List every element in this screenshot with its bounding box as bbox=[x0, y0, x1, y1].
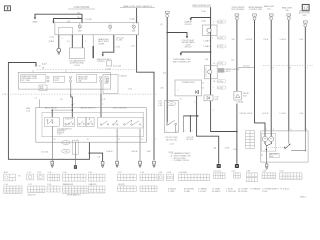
svg-text:0-P/L-B: 0-P/L-B bbox=[240, 113, 247, 115]
svg-text:1/B: 1/B bbox=[260, 155, 262, 157]
svg-text:W: WHITE: W: WHITE bbox=[212, 191, 221, 193]
svg-text:1: 1 bbox=[155, 139, 156, 141]
svg-text:2 L-WB: 2 L-WB bbox=[116, 40, 123, 42]
svg-text:6: 6 bbox=[110, 31, 111, 33]
relay band text box 3 bbox=[77, 75, 97, 83]
dimmer switch box bbox=[98, 117, 144, 128]
svg-text:(2/B-B: (2/B-B bbox=[49, 41, 55, 43]
svg-text:NO.7 15A): NO.7 15A) bbox=[22, 79, 30, 82]
svg-text:1: 1 bbox=[266, 129, 267, 131]
fusible link column 3 bbox=[269, 14, 273, 20]
fuse box upper bbox=[203, 25, 218, 36]
svg-text:CIRCUIT: CIRCUIT bbox=[184, 24, 192, 26]
switch contact 1 bbox=[78, 23, 81, 29]
inline connector marks on loop top bbox=[35, 64, 37, 66]
svg-text:1: 1 bbox=[212, 37, 213, 39]
svg-text:C-23: C-23 bbox=[118, 172, 122, 174]
relay band right pins bbox=[106, 78, 108, 83]
svg-text:L-W: L-W bbox=[67, 21, 71, 23]
wire branch to connector bbox=[89, 153, 102, 161]
svg-text:UNIT: UNIT bbox=[104, 83, 108, 85]
svg-text:P/L-B: P/L-B bbox=[247, 113, 252, 115]
dashed bulkhead line upper bbox=[37, 69, 136, 71]
svg-text:(C-05): (C-05) bbox=[106, 68, 111, 70]
svg-text:(LO): (LO) bbox=[267, 8, 271, 10]
wire charge circuit branch bbox=[191, 17, 211, 19]
svg-text:4: 4 bbox=[74, 103, 75, 105]
fusible link column 5 bbox=[303, 21, 307, 27]
svg-text:COLUMN-SW: COLUMN-SW bbox=[63, 184, 74, 186]
wire relay output to black connector bbox=[75, 142, 77, 165]
svg-text:C-11: C-11 bbox=[48, 172, 52, 174]
relay band box 2 bbox=[54, 76, 65, 82]
node pop-up branch bbox=[166, 32, 168, 34]
black joint connector B bbox=[235, 164, 239, 168]
relay box 3 bbox=[78, 117, 86, 126]
svg-text:14: 14 bbox=[180, 99, 182, 101]
svg-text:L: BLUE: L: BLUE bbox=[226, 188, 233, 190]
svg-text:C-304: C-304 bbox=[74, 65, 80, 67]
wire switch output 1 bbox=[81, 35, 83, 48]
svg-text:C-83: C-83 bbox=[246, 171, 250, 173]
column relay box bbox=[69, 48, 84, 59]
wire column 2 bbox=[255, 20, 266, 131]
connector ellipse on pop-up trunk bbox=[167, 102, 176, 106]
svg-text:COM POP: COM POP bbox=[65, 119, 74, 121]
svg-text:4-18: 4-18 bbox=[215, 99, 219, 101]
bulb ground junction bbox=[265, 142, 271, 163]
wire motor lead 2 bbox=[189, 116, 191, 132]
svg-text:C-26 (B): C-26 (B) bbox=[236, 102, 244, 104]
svg-text:7 B-18: 7 B-18 bbox=[262, 191, 267, 193]
svg-text:13: 13 bbox=[141, 139, 143, 141]
svg-text:1-7/B: 1-7/B bbox=[225, 148, 230, 150]
pin into big box bbox=[39, 99, 41, 107]
dashed bulkhead line lower bbox=[2, 93, 157, 95]
fuse box lower bbox=[204, 66, 217, 79]
svg-text:C-17: C-17 bbox=[28, 184, 32, 186]
svg-text:0-RL-B: 0-RL-B bbox=[131, 151, 138, 153]
svg-text:J/B (10P): J/B (10P) bbox=[90, 184, 97, 186]
svg-text:O: ORANGE: O: ORANGE bbox=[250, 187, 261, 190]
svg-text:C-05: C-05 bbox=[63, 172, 67, 174]
svg-text:A-10: A-10 bbox=[4, 171, 8, 174]
svg-text:← : CONNECTOR FIX: ← : CONNECTOR FIX bbox=[171, 160, 190, 162]
svg-text:9 (C-05): 9 (C-05) bbox=[243, 66, 250, 68]
connector pin circles B bbox=[100, 76, 102, 82]
svg-text:C-03: C-03 bbox=[167, 172, 171, 174]
connector terminal bbox=[101, 161, 104, 167]
svg-text:(1): (1) bbox=[160, 24, 163, 26]
svg-text:12: 12 bbox=[39, 66, 41, 68]
svg-text:Br: BROWN: Br: BROWN bbox=[184, 188, 194, 190]
svg-text:L-P/L: L-P/L bbox=[128, 88, 132, 90]
svg-text:14: 14 bbox=[213, 63, 215, 65]
fusible link column 4 bbox=[287, 14, 291, 20]
power unit box bbox=[175, 80, 202, 96]
diode inside power unit bbox=[196, 90, 199, 94]
wire trunk D from switch bbox=[103, 35, 114, 55]
svg-text:5 (C-05): 5 (C-05) bbox=[41, 151, 48, 153]
connector label outlines bbox=[217, 20, 226, 23]
connector terminal under relay bbox=[51, 161, 54, 167]
svg-text:2: 2 bbox=[273, 129, 274, 131]
svg-text:Y: YELLOW: Y: YELLOW bbox=[226, 191, 236, 193]
wire dimmer high output bbox=[139, 129, 141, 161]
wire big ground loop bbox=[8, 63, 89, 160]
svg-text:POWER UNIT: POWER UNIT bbox=[182, 82, 196, 84]
svg-text:L-3/L: L-3/L bbox=[299, 39, 303, 41]
dashed intermediate connector line bbox=[263, 65, 313, 67]
connector terminal low bbox=[116, 161, 119, 167]
wire fuse link cross bbox=[238, 67, 255, 69]
svg-text:R: RED: R: RED bbox=[184, 191, 191, 193]
svg-text:1: 1 bbox=[166, 131, 167, 133]
inner switch assembly box bbox=[42, 112, 144, 136]
svg-text:CIRCUIT: CIRCUIT bbox=[184, 47, 192, 49]
svg-text:L-3/L B: L-3/L B bbox=[280, 39, 287, 41]
svg-text:25 A: 25 A bbox=[201, 10, 206, 13]
svg-text:J/B (16P): J/B (16P) bbox=[118, 184, 125, 186]
node junction on bottom trunk bbox=[89, 152, 91, 154]
wire branch to pop-up circuit bbox=[167, 33, 187, 37]
svg-text:L-3/L: L-3/L bbox=[299, 113, 303, 115]
svg-text:2: 2 bbox=[194, 102, 195, 104]
svg-text:CONTROL UNIT: CONTROL UNIT bbox=[249, 9, 263, 11]
svg-text:25 A: 25 A bbox=[201, 20, 206, 23]
svg-text:G: GREEN: G: GREEN bbox=[198, 188, 207, 190]
svg-text:3: 3 bbox=[306, 129, 307, 131]
svg-text:C-05-2 (B) 15A: C-05-2 (B) 15A bbox=[74, 6, 90, 9]
wire pop-up motor bus bbox=[183, 115, 197, 117]
svg-text:C-03: C-03 bbox=[169, 143, 173, 145]
svg-text:HID CONT: HID CONT bbox=[270, 154, 278, 156]
svg-text:C-10: C-10 bbox=[64, 151, 68, 153]
svg-text:C-16: C-16 bbox=[4, 184, 8, 186]
svg-text:P/L-B: P/L-B bbox=[264, 39, 269, 41]
svg-text:4: 4 bbox=[176, 131, 177, 133]
relay box 1 bbox=[45, 117, 60, 126]
svg-text:L-4/5: L-4/5 bbox=[131, 45, 135, 47]
dedicated fuse sub-box bbox=[39, 85, 47, 91]
wire bulb feeds inside bbox=[264, 131, 266, 137]
wire relay band output B bbox=[100, 82, 102, 94]
arrow to battery bbox=[34, 17, 36, 19]
pin ticks band to bulkhead bbox=[32, 70, 34, 73]
svg-text:(B): (B) bbox=[214, 148, 217, 150]
svg-text:12: 12 bbox=[118, 139, 120, 141]
svg-text:1: 1 bbox=[192, 130, 193, 132]
wire column 5 bbox=[304, 27, 306, 131]
svg-text:(HI): (HI) bbox=[286, 10, 289, 12]
shielded joint connector black square bbox=[74, 165, 77, 169]
switch contact 3 bbox=[132, 24, 135, 30]
connector ring terminal bbox=[57, 48, 61, 52]
svg-text:9: 9 bbox=[213, 110, 214, 112]
engine compartment relay band box bbox=[18, 73, 110, 90]
svg-text:C-08 (GR): C-08 (GR) bbox=[179, 172, 188, 174]
dashed leveling link bbox=[268, 146, 285, 148]
wire relay band output A bbox=[70, 82, 72, 94]
wire leveling feed 4 bbox=[288, 131, 290, 144]
svg-text:C-311: C-311 bbox=[57, 134, 62, 136]
svg-text:AND CORNER LIGHT: AND CORNER LIGHT bbox=[173, 60, 192, 63]
fusible link column 1 bbox=[235, 14, 239, 20]
wire column 4 bbox=[288, 20, 290, 131]
svg-text:L-P/L-B: L-P/L-B bbox=[262, 113, 269, 115]
svg-text:C-12: C-12 bbox=[27, 172, 31, 174]
ground stub below headlight box bbox=[265, 162, 267, 164]
svg-text:4: 4 bbox=[291, 129, 292, 131]
svg-text:1: 1 bbox=[178, 90, 179, 92]
svg-text:15: 15 bbox=[54, 139, 56, 141]
svg-text:2: 2 bbox=[62, 38, 63, 40]
connector terminal lamp-ctrl bbox=[153, 161, 156, 167]
wire path B J/B to ground bbox=[211, 101, 237, 132]
svg-text:C-18: C-18 bbox=[47, 184, 51, 186]
black joint connector A bbox=[217, 164, 221, 168]
svg-text:1 (B): 1 (B) bbox=[233, 149, 237, 151]
pop-up relay box bbox=[165, 101, 179, 133]
svg-text:0-1: 0-1 bbox=[67, 41, 70, 43]
svg-text:C-10: C-10 bbox=[64, 142, 68, 144]
svg-text:14: 14 bbox=[87, 139, 89, 141]
smart J/B hatch block bbox=[218, 68, 224, 72]
svg-text:CONTROL: CONTROL bbox=[97, 61, 105, 63]
svg-text:B01: B01 bbox=[132, 31, 135, 33]
wire column 1 lower bbox=[236, 104, 238, 164]
wire dimmer low output bbox=[116, 129, 118, 161]
svg-text:1: 1 bbox=[85, 41, 86, 43]
svg-text:0-RL-B: 0-RL-B bbox=[106, 151, 113, 153]
wire J/B main trunk bbox=[210, 7, 212, 95]
relay box 2 bbox=[64, 117, 75, 126]
switch contact 2 bbox=[109, 24, 112, 30]
svg-text:AUTO RELAY: AUTO RELAY bbox=[45, 106, 58, 109]
big column switch box bbox=[36, 108, 147, 143]
svg-text:L 2: L 2 bbox=[35, 98, 37, 100]
svg-text:1-05A 8: 1-05A 8 bbox=[203, 45, 209, 48]
svg-text:C-08 A-02: C-08 A-02 bbox=[119, 75, 127, 78]
svg-text:B: BLACK: B: BLACK bbox=[168, 187, 177, 190]
svg-text:MOTOR RELAY: MOTOR RELAY bbox=[232, 8, 246, 11]
svg-text:C-30: C-30 bbox=[262, 171, 266, 173]
lighting switch box bbox=[55, 23, 139, 35]
headlight assembly box bbox=[261, 131, 308, 162]
diode box on J/B output bbox=[204, 95, 213, 101]
svg-text:LAMP-CTRL SWITCH(AUTO): LAMP-CTRL SWITCH(AUTO) bbox=[123, 5, 152, 8]
svg-text:C-25: C-25 bbox=[140, 172, 144, 174]
relay box 4 bbox=[86, 117, 94, 126]
svg-text:JR04-7: JR04-7 bbox=[300, 196, 306, 198]
svg-text:n: n bbox=[307, 67, 308, 69]
svg-text:12 (C-05): 12 (C-05) bbox=[113, 65, 121, 67]
svg-text:MOTOR (LH): MOTOR (LH) bbox=[166, 139, 177, 141]
svg-text:INSTRUMENT(C): INSTRUMENT(C) bbox=[67, 195, 81, 197]
svg-text:(BODY) B: (BODY) B bbox=[28, 195, 36, 197]
svg-text:C-302: C-302 bbox=[129, 19, 136, 21]
fusible link column 2 bbox=[253, 14, 257, 20]
wire turn signal branch bbox=[181, 51, 211, 53]
connector box D bbox=[107, 61, 112, 66]
warning diode box column 1 bbox=[234, 91, 241, 100]
svg-text:C-10: C-10 bbox=[88, 172, 92, 174]
svg-text:Lg: LT-GRN: Lg: LT-GRN bbox=[238, 188, 248, 190]
wire pop-up trunk bbox=[166, 17, 168, 122]
component box right of column relay bbox=[92, 35, 94, 46]
wire leveling feed 3 bbox=[291, 131, 305, 151]
svg-text:NO.8: NO.8 bbox=[55, 80, 59, 82]
svg-text:2-P/L-B: 2-P/L-B bbox=[246, 39, 253, 41]
leveling actuator contact bbox=[285, 144, 290, 149]
svg-text:L-3/L-B: L-3/L-B bbox=[280, 113, 287, 115]
svg-text:DOWN: DOWN bbox=[98, 43, 105, 45]
svg-text:□ : POWER SUPPLY: □ : POWER SUPPLY bbox=[262, 187, 280, 190]
wire switch output to ground connector bbox=[58, 35, 60, 48]
svg-text:2: 2 bbox=[185, 130, 186, 132]
control unit tall box bbox=[103, 75, 118, 94]
svg-text:C-14 rear: C-14 rear bbox=[214, 171, 222, 173]
connector C-10 ellipse 1 bbox=[62, 141, 70, 145]
svg-text:1-05A 8: 1-05A 8 bbox=[203, 40, 209, 43]
connector terminal high bbox=[139, 161, 142, 167]
page marker 1 bbox=[4, 6, 10, 11]
svg-text:MAIN: MAIN bbox=[33, 21, 38, 24]
lighting switch sub-box bbox=[59, 27, 73, 35]
svg-text:7: 7 bbox=[213, 87, 214, 89]
wire lamp-ctrl feed bbox=[136, 8, 138, 23]
svg-text:UNIT: UNIT bbox=[270, 156, 274, 158]
svg-text:1: 1 bbox=[77, 139, 78, 141]
svg-text:1: 1 bbox=[103, 103, 104, 105]
svg-text:C-14: C-14 bbox=[170, 104, 174, 106]
wire motor lead 1 bbox=[182, 116, 184, 132]
svg-text:V: VIOLET: V: VIOLET bbox=[198, 191, 207, 193]
svg-text:C-32: C-32 bbox=[280, 171, 284, 173]
headlight connector pin table bbox=[246, 131, 255, 149]
connector C-10 ellipse 2 bbox=[62, 149, 70, 153]
svg-text:ANODE SWITCH: ANODE SWITCH bbox=[81, 106, 96, 109]
svg-text:*R: 4 W-um: *R: 4 W-um bbox=[280, 188, 290, 190]
headlight inner bulb box bbox=[262, 134, 276, 152]
svg-text:Sb: SKY-BL: Sb: SKY-BL bbox=[238, 191, 247, 193]
wire column 3 bbox=[270, 20, 272, 131]
node J/B branch bbox=[210, 51, 212, 53]
svg-text:J/B 1C: J/B 1C bbox=[225, 71, 231, 73]
svg-text:AUTO SWITCH: AUTO SWITCH bbox=[113, 106, 127, 109]
label box inside headlight bbox=[269, 153, 279, 158]
wire column 1 bbox=[236, 20, 238, 91]
svg-text:C-13: C-13 bbox=[37, 172, 41, 174]
svg-text:7: 7 bbox=[213, 21, 214, 23]
svg-text:1 (C-05): 1 (C-05) bbox=[85, 19, 92, 21]
headlight bulb low bbox=[262, 136, 267, 141]
svg-text:P: PINK: P: PINK bbox=[168, 191, 175, 193]
wire battery feed trunk bbox=[35, 14, 82, 23]
relay band text box 1 bbox=[21, 75, 46, 83]
svg-text:C-15: C-15 bbox=[231, 171, 235, 173]
wire relay output to connector bbox=[51, 127, 53, 162]
page marker 2 bbox=[302, 5, 309, 11]
wire switch output 0-1 bbox=[71, 35, 73, 48]
pop-up relay contacts bbox=[166, 120, 176, 132]
headlight bulb high bbox=[269, 136, 274, 141]
svg-text:Gr: GRAY: Gr: GRAY bbox=[212, 187, 221, 190]
fusible link header C-05-2 bbox=[68, 6, 95, 21]
svg-text:b: b bbox=[272, 67, 273, 69]
wire path A power unit to ground bbox=[197, 96, 219, 164]
connector pin circles A bbox=[69, 76, 71, 82]
wire lamp-ctrl down and over bbox=[137, 35, 154, 160]
svg-text:MOTOR: MOTOR bbox=[187, 139, 194, 141]
svg-text:L-RG: L-RG bbox=[116, 47, 121, 49]
pop-up light column header connector bbox=[165, 11, 169, 17]
lamp control switch header bbox=[120, 5, 155, 8]
svg-text:C-26: C-26 bbox=[158, 172, 162, 174]
wire into relay bbox=[51, 110, 53, 117]
